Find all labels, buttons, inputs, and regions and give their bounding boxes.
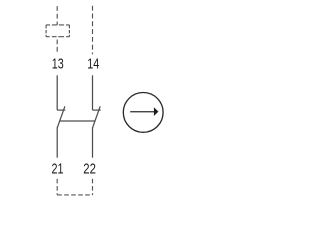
wire: terminal 21 lead bbox=[56, 127, 58, 157]
wire: terminal 22 lead bbox=[92, 127, 94, 157]
mechanical link dashed (bottom horizontal) bbox=[57, 194, 92, 196]
wire: terminal 13 lead bbox=[56, 75, 58, 110]
actuator element dashed box: top edge bbox=[46, 24, 69, 26]
contact right: moving blade (NO contact) bbox=[93, 106, 101, 127]
mechanical actuator dashed link (below box) bbox=[56, 40, 58, 52]
contact left: fixed contact tick bbox=[57, 109, 65, 111]
svg-text:13: 13 bbox=[52, 57, 64, 73]
contact right: fixed contact tick bbox=[93, 109, 101, 111]
actuation direction symbol: arrow shaft bbox=[130, 111, 154, 113]
actuator element dashed box: right edge bbox=[68, 25, 70, 37]
mechanical link dashed (below 21) bbox=[56, 179, 58, 195]
mechanical link between contact blades bbox=[60, 120, 95, 122]
mechanical actuator dashed link (top left, above box) bbox=[56, 6, 58, 25]
svg-text:22: 22 bbox=[83, 162, 96, 178]
svg-text:14: 14 bbox=[87, 57, 99, 73]
svg-text:21: 21 bbox=[52, 162, 64, 178]
wire: terminal 14 lead bbox=[92, 75, 94, 110]
mechanical actuator dashed link (top right) bbox=[92, 6, 94, 55]
mechanical link dashed (below 22) bbox=[92, 179, 94, 195]
actuation direction symbol: arrow head bbox=[154, 107, 159, 116]
actuator element dashed box: bottom edge bbox=[46, 36, 69, 38]
actuation direction symbol: circle bbox=[123, 93, 163, 133]
actuator element dashed box: left edge bbox=[45, 25, 47, 37]
contact left: moving blade (NO contact) bbox=[57, 106, 65, 127]
